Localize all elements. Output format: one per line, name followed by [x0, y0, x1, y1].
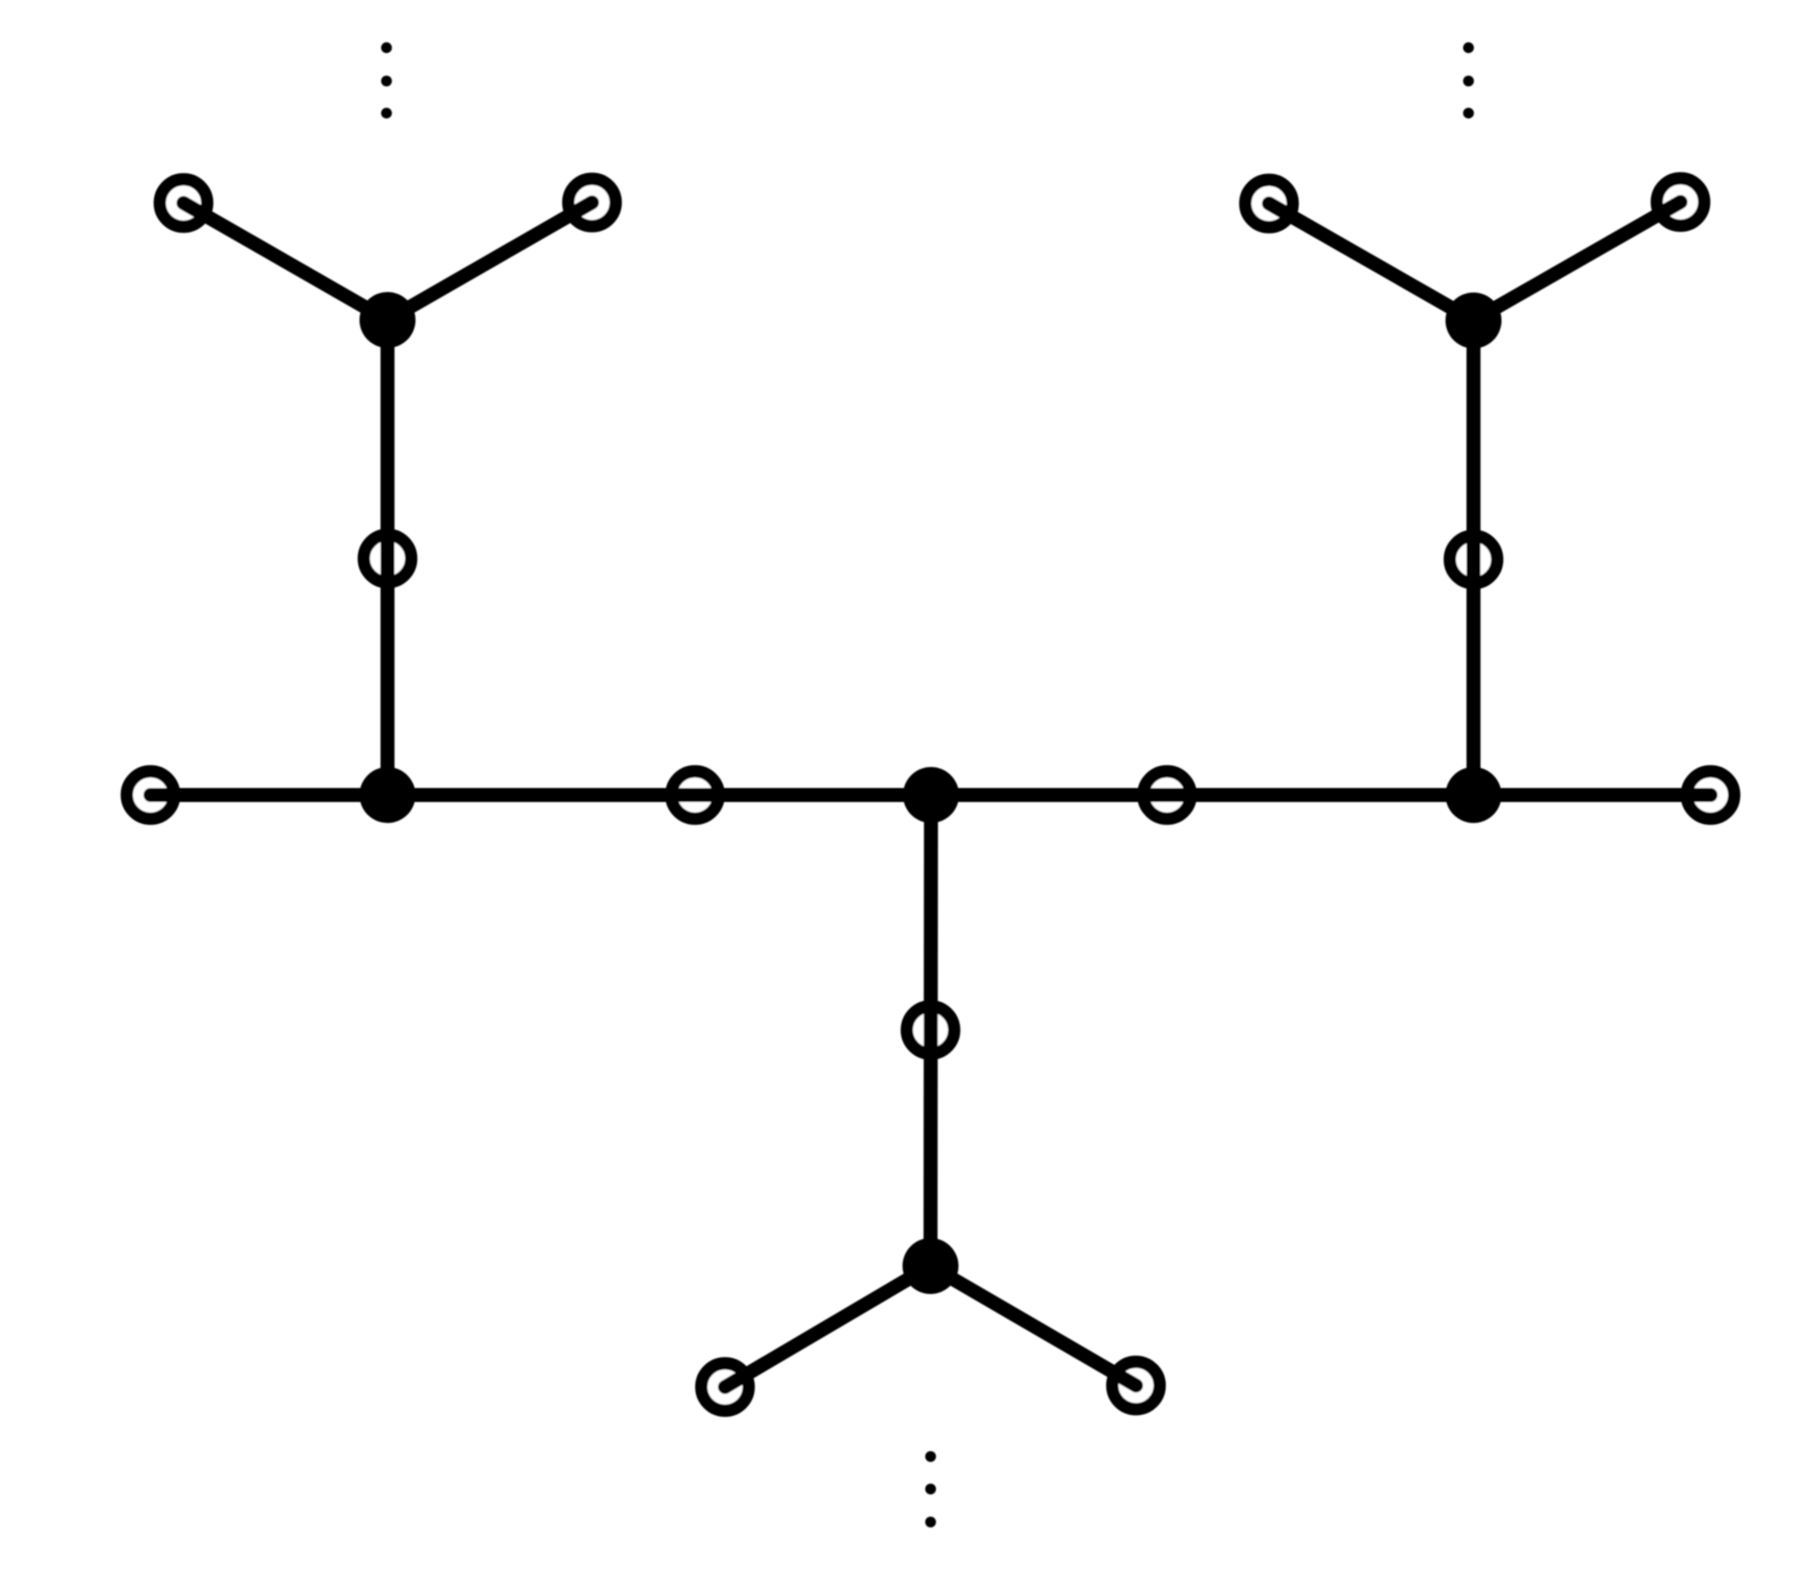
- filled node: right branch head: [1446, 293, 1502, 349]
- wire: right branch node to horizontal line right end: [1474, 788, 1711, 802]
- wire: right Y arm to top-left leaf: [1269, 204, 1474, 321]
- open node: bottom-right leaf of bottom Y: [1112, 1362, 1159, 1409]
- wire: left vertical branch: [381, 320, 395, 795]
- open node: top-left leaf of left Y: [160, 179, 207, 226]
- wire: bottom Y arm to bottom-right leaf: [931, 1266, 1137, 1386]
- wire: right Y arm to top-right leaf: [1474, 202, 1681, 321]
- filled node: on horizontal line left: [360, 767, 416, 823]
- filled node: on horizontal line right: [1446, 767, 1502, 823]
- wire: horizontal line left end to left branch node: [151, 788, 388, 802]
- open node: middle of bottom vertical branch: [907, 1006, 954, 1053]
- open node: left end of horizontal line: [127, 771, 174, 818]
- open node: middle of right vertical branch: [1450, 536, 1497, 583]
- vertical ellipsis below bottom branch: [925, 1451, 936, 1527]
- wire: left branch node to center node: [388, 788, 932, 802]
- wire: bottom vertical branch: [924, 795, 939, 1266]
- open node: bottom-left leaf of bottom Y: [701, 1363, 748, 1410]
- vertical ellipsis above left branch: [381, 42, 392, 118]
- vertical ellipsis above right branch: [1463, 42, 1474, 118]
- open node: top-right leaf of left Y: [568, 179, 615, 226]
- filled node: bottom branch head: [903, 1238, 959, 1294]
- open node: middle of left vertical branch: [364, 535, 411, 582]
- open node: right end of horizontal line: [1687, 771, 1734, 818]
- wire: right vertical branch: [1467, 321, 1481, 796]
- filled node: center of horizontal line: [903, 767, 959, 823]
- wire: left Y arm to top-right leaf: [388, 203, 593, 321]
- open node: top-right leaf of right Y: [1657, 178, 1704, 225]
- wire: bottom Y arm to bottom-left leaf: [725, 1266, 931, 1387]
- wire: center node to right branch node: [931, 788, 1474, 802]
- filled node: left branch head: [360, 292, 416, 348]
- open node: on horizontal line right of center: [1143, 771, 1190, 818]
- wire: left Y arm to top-left leaf: [184, 203, 388, 320]
- open node: top-left leaf of right Y: [1245, 180, 1292, 227]
- open node: on horizontal line left of center: [671, 771, 718, 818]
